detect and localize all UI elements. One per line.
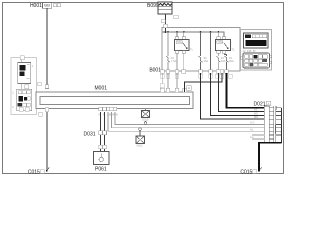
- D021 short stub row8: [252, 134, 264, 136]
- relay T05 (U2): [216, 32, 236, 53]
- svg-text:42 F38 52: 42 F38 52: [243, 49, 257, 53]
- connector D021: [254, 101, 271, 107]
- wire rail drop x210.5 to edge: [210, 32, 212, 70]
- M001 top pin boxes for B001 wires: [160, 88, 186, 92]
- D021 short stub row9: [252, 138, 264, 140]
- wire relay T07 pin1 to edge: [176, 53, 178, 69]
- wire code label box above M001: [38, 82, 42, 86]
- svg-text:MN: MN: [254, 115, 258, 119]
- svg-text:B099: B099: [147, 3, 159, 9]
- svg-text:C015: C015: [28, 169, 40, 175]
- svg-text:M001: M001: [95, 85, 108, 91]
- fusebox B001: [149, 28, 240, 74]
- socket P061: [94, 152, 110, 173]
- rail inside B001: [162, 31, 224, 37]
- P061 pin boxes: [99, 145, 103, 149]
- svg-text:A: A: [188, 86, 190, 90]
- svg-text:15A: 15A: [204, 59, 209, 63]
- ground terminal C015 left: [28, 168, 49, 176]
- wire relay T07 pin2 to edge: [183, 53, 185, 69]
- svg-text:D021: D021: [254, 101, 266, 107]
- svg-text:C015: C015: [240, 169, 252, 175]
- fuse F2 x200.5: [199, 32, 209, 70]
- ground terminal C015 right: [240, 168, 261, 176]
- fuse F1 x168: [166, 32, 177, 70]
- svg-text:P061: P061: [95, 167, 107, 173]
- fuse F4 x226.5: [224, 53, 234, 69]
- svg-text:BG: BG: [254, 111, 258, 115]
- svg-text:AL: AL: [250, 127, 254, 131]
- heavy wire B001 p226 to D021 row1: [227, 73, 265, 108]
- svg-text:30A: 30A: [229, 59, 234, 63]
- pin box B001 top entry: [164, 24, 168, 27]
- wire M001 to harness wire3: [108, 112, 264, 131]
- D021 pin bridges: [269, 108, 274, 139]
- svg-text:G011: G011: [137, 144, 144, 148]
- pin box M001 top (H001 wire): [45, 85, 49, 89]
- wire codes below bus: [99, 113, 118, 117]
- M001 bottom pin boxes: [45, 107, 116, 111]
- legend box (fusebox location views): [241, 30, 272, 71]
- dark wire B001 p200 east to D021 row4: [201, 73, 265, 119]
- splice G1 (upper x-box): [142, 109, 150, 125]
- dark wire B001 p222 west to M001 pin: [185, 73, 222, 92]
- wire M001 pin1 to P061 (dark): [100, 112, 102, 151]
- legend top: body computer view: [244, 33, 269, 48]
- wire codes at D021 left: [250, 108, 258, 139]
- heavy ground wire to C015 right: [259, 143, 281, 171]
- dark wire B001 p218 east to D021 row2: [218, 73, 264, 111]
- connector H001: [30, 3, 61, 10]
- wire H001 to M001: [46, 8, 48, 88]
- splice G2 (lower x-box): [136, 128, 145, 148]
- svg-text:10A: 10A: [221, 59, 226, 63]
- B001 below-edge wire label boxes: [160, 74, 232, 78]
- wire M001 to C015 (left ground): [46, 112, 48, 170]
- svg-text:B001: B001: [149, 68, 161, 74]
- component A001 (left unit, upper block): [11, 56, 37, 115]
- wires B001 to M001 top pins: [160, 73, 191, 92]
- wire M001 to harness wire1: [115, 112, 264, 124]
- relay T07 (U1): [175, 32, 194, 53]
- svg-text:T05A: T05A: [177, 40, 183, 44]
- svg-text:T05A: T05A: [217, 40, 223, 44]
- wire M001 pin2 to P061 (dark): [104, 112, 106, 151]
- wire M001 to harness wire2: [112, 112, 265, 128]
- D021 right side stubs to ground bus: [276, 108, 281, 143]
- svg-text:H001: H001: [30, 3, 42, 9]
- svg-text:A-L: A-L: [250, 135, 255, 139]
- B001 bottom edge pin boxes: [160, 70, 228, 74]
- fuse F3 x218.3: [216, 53, 225, 69]
- svg-text:7,5A: 7,5A: [171, 59, 177, 63]
- svg-text:AZ: AZ: [254, 108, 258, 112]
- dark wire B001 p210 east to D021 row3: [211, 73, 265, 115]
- connector D031: [84, 131, 107, 138]
- wire B099 to B001: [165, 14, 167, 32]
- svg-text:A: A: [267, 102, 269, 106]
- battery B099: [147, 2, 172, 14]
- legend bottom: fuse layout view: [241, 49, 272, 69]
- busbar M001: [36, 85, 193, 108]
- svg-text:D031: D031: [84, 131, 96, 137]
- component A002 (left unit, lower block): [12, 84, 32, 112]
- svg-text:A-C: A-C: [250, 120, 255, 124]
